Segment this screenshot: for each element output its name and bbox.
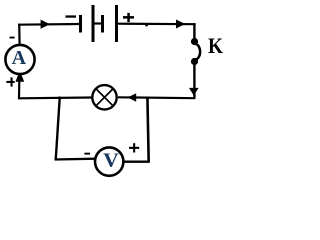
junction speck on top-right wire: [145, 24, 148, 26]
voltmeter V: [95, 147, 123, 175]
current arrow on top-right wire: [176, 20, 185, 29]
ammeter plus label: [6, 77, 14, 86]
ammeter minus label: [10, 37, 15, 39]
battery cell1 long plate (positive): [92, 5, 95, 42]
current arrow pointing up into ammeter: [15, 71, 24, 82]
wire top-right horizontal from battery to switch corner: [118, 23, 196, 26]
ammeter A: [5, 45, 34, 74]
svg-text:V: V: [103, 151, 119, 172]
wire left vertical from bottom wire up toward ammeter: [18, 80, 20, 99]
battery cell1 short plate (negative): [79, 15, 82, 33]
wire top-left horizontal from ammeter to battery: [18, 23, 79, 26]
voltmeter branch right vertical wire: [147, 97, 148, 163]
voltmeter minus label: [84, 153, 90, 155]
switch K top terminal dot: [191, 38, 198, 45]
switch K bottom terminal dot: [191, 58, 198, 65]
voltmeter plus label: [129, 143, 139, 152]
wire right vertical lower (switch down to bottom wire): [193, 62, 195, 99]
svg-text:A: A: [12, 47, 27, 69]
battery cell2 short plate (negative): [101, 15, 104, 33]
battery inter-cell connector wire: [94, 22, 102, 24]
battery minus label: [66, 15, 77, 17]
voltmeter branch bottom-right wire: [123, 160, 150, 162]
battery plus label: [123, 13, 134, 22]
battery cell2 long plate (positive): [115, 5, 118, 42]
wire bottom-left horizontal (lamp to left corner): [18, 96, 92, 99]
voltmeter branch left vertical wire: [56, 97, 60, 161]
wire right vertical upper (corner down to switch): [193, 23, 195, 42]
current arrow on right vertical pointing down: [189, 88, 199, 96]
switch K blade arc: [195, 44, 201, 61]
svg-text:K: K: [208, 33, 223, 58]
wire bottom-right horizontal (corner to lamp): [118, 96, 195, 99]
lamp L1 (circle with X): [92, 85, 116, 109]
current arrow pointing left toward lamp: [128, 93, 137, 102]
voltmeter branch bottom-left wire: [55, 158, 96, 161]
current arrow on top-left wire: [41, 20, 50, 29]
wire left vertical from top wire down to ammeter: [18, 24, 21, 45]
